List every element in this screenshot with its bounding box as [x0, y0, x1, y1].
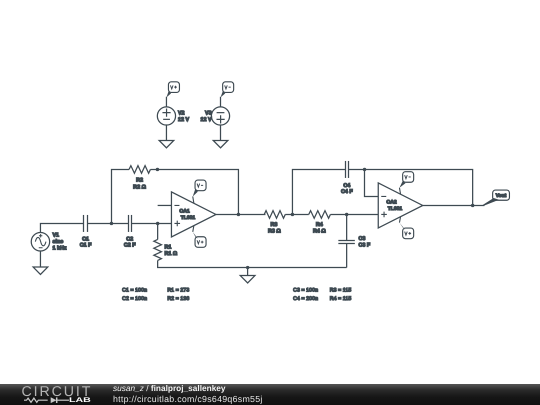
svg-text:LAB: LAB [69, 397, 91, 404]
